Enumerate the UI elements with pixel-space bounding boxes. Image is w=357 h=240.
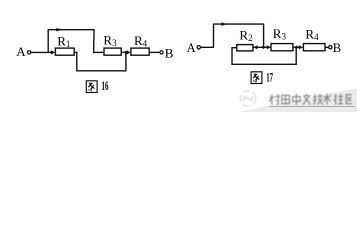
char she (society): [334, 94, 343, 105]
resistor R3 box (fig17): [271, 44, 293, 51]
wire top bypass descent (fig16): [93, 29, 96, 52]
char zhong (middle): [293, 94, 301, 105]
svg-text:R4: R4: [305, 26, 319, 42]
watermark text (vector strokes, blurred grey): [269, 94, 352, 105]
junction dot (fig17): [294, 46, 298, 50]
arrow into R4 (fig16): [127, 50, 131, 54]
resistor R3 box (fig16): [104, 48, 121, 55]
wire R3 to junction (fig17): [293, 46, 299, 48]
arrow into R3 (fig17): [267, 45, 271, 49]
wire R4 to B (fig17): [325, 46, 329, 48]
char tian (field): [282, 95, 290, 103]
svg-text:R3: R3: [273, 26, 287, 42]
terminal B circle (fig17): [329, 46, 332, 49]
wire descent to R3 (fig16): [93, 51, 104, 53]
arrow into R4 (fig17): [299, 45, 303, 49]
wire A to riser (fig17): [201, 46, 214, 48]
caption fig17: glyph TU: [251, 72, 262, 84]
resistor R4 box (fig16): [131, 48, 149, 55]
char wen (language): [303, 94, 310, 105]
resistor R4 box (fig17): [303, 44, 325, 51]
svg-text:A: A: [187, 41, 196, 55]
bottom bypass horizontal (fig17): [231, 63, 296, 65]
resistor R1 box (fig16): [55, 48, 74, 55]
char ji (skill): [313, 94, 323, 105]
resistor R2 box (fig17): [237, 45, 253, 51]
stub from R2 left (fig17): [232, 47, 237, 49]
junction dot (fig16): [124, 51, 128, 55]
char cun (village): [269, 94, 280, 105]
wire into R1 with arrow (fig16): [48, 51, 51, 53]
arrow on top wire (fig17): [222, 22, 228, 26]
wire R4 to B (fig16): [149, 51, 160, 53]
char shu (technique): [324, 94, 331, 105]
svg-text:16: 16: [102, 79, 109, 93]
svg-text:R2: R2: [239, 27, 252, 43]
wire R2 junction R3 (fig17): [253, 46, 271, 48]
wire R3 to junction (fig16): [121, 51, 127, 53]
svg-text:B: B: [165, 45, 174, 60]
terminal A circle (fig16): [27, 51, 30, 54]
watermark grey wash: [238, 88, 357, 112]
svg-text:R4: R4: [134, 33, 148, 49]
svg-text:17: 17: [266, 71, 273, 85]
wire R1 to bottom bypass corner (fig16): [74, 51, 77, 53]
watermark logo circle: [240, 91, 255, 106]
riser up (fig17): [213, 24, 215, 48]
junction dot at descent (fig17): [261, 46, 265, 50]
svg-text:A: A: [16, 44, 26, 59]
terminal B circle (fig16): [160, 51, 163, 54]
svg-text:B: B: [333, 41, 341, 55]
bottom bypass horizontal (fig16): [76, 70, 126, 72]
bottom bypass up (fig17): [295, 47, 297, 65]
wire A to riser (fig16): [31, 51, 48, 53]
wire riser up (fig16): [47, 30, 49, 53]
arrow into R2 right (fig17): [253, 45, 257, 49]
bottom bypass down (fig16): [76, 52, 78, 71]
bottom bypass down (fig17): [231, 47, 233, 64]
wire top bypass (fig16): [48, 29, 95, 31]
top bypass wire (fig17): [213, 23, 264, 25]
caption fig16: glyph TU: [86, 81, 97, 93]
terminal A circle (fig17): [197, 46, 200, 49]
bottom bypass up (fig16): [125, 52, 127, 71]
top bypass descent (fig17): [263, 24, 265, 48]
watermark underline: [269, 105, 355, 107]
svg-text:R1: R1: [57, 33, 70, 49]
char qu (district): [346, 95, 352, 104]
arrow on top wire (fig16): [56, 28, 62, 32]
svg-text:R3: R3: [103, 32, 117, 48]
